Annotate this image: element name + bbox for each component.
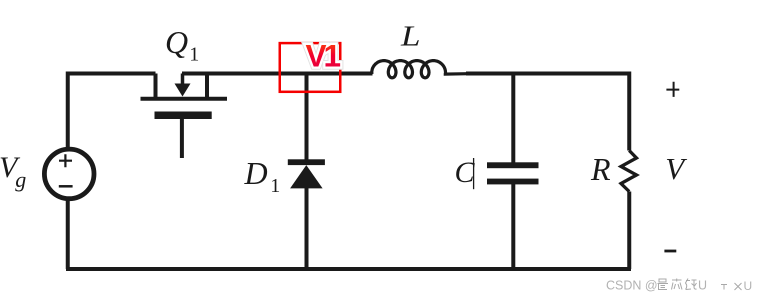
svg-text:U: U	[698, 279, 707, 293]
svg-text:L: L	[400, 20, 421, 52]
svg-text:1: 1	[270, 175, 280, 197]
svg-text:CSDN @: CSDN @	[606, 279, 658, 293]
svg-text:R: R	[590, 151, 611, 187]
svg-text:U: U	[744, 279, 753, 293]
svg-text:Q: Q	[165, 24, 188, 60]
svg-text:C: C	[455, 156, 476, 189]
svg-text:D: D	[244, 155, 268, 191]
svg-text:V: V	[665, 151, 687, 186]
svg-text:1: 1	[189, 44, 199, 66]
svg-text:g: g	[15, 167, 26, 192]
svg-text:1: 1	[324, 38, 342, 74]
